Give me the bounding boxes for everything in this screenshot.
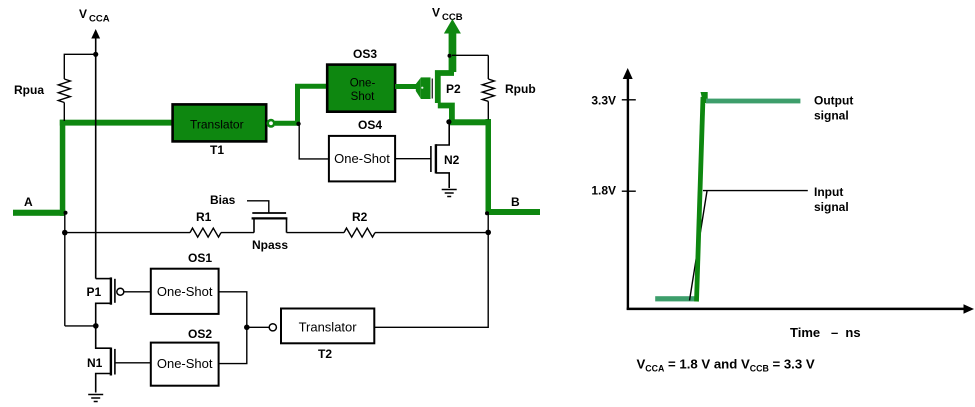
bubble P2 gate green flare [416, 78, 421, 99]
junction dot T1 OS4 branch [296, 122, 300, 126]
wire VCCA to Rpua [64, 54, 95, 79]
svg-text:Rpub: Rpub [505, 82, 536, 96]
output signal high segment light green [706, 99, 800, 104]
svg-text:N2: N2 [444, 153, 460, 167]
gate edge dark P2 [431, 79, 433, 99]
svg-text:Time – ns: Time – ns [790, 325, 861, 340]
label Input signal [814, 185, 849, 214]
wire P1 gate to OS1 [124, 291, 151, 293]
junction dot A corner [64, 211, 68, 215]
svg-text:Shot: Shot [351, 91, 375, 103]
wire R1 left segment [65, 232, 190, 234]
node A green bus [13, 120, 173, 216]
svg-text:V: V [432, 6, 440, 20]
junction dot P2 N2 drain [446, 119, 451, 124]
svg-text:R2: R2 [352, 210, 368, 224]
wire OS3 output green [395, 84, 416, 89]
svg-text:VCCA = 1.8 V and VCCB = 3.3 V: VCCA = 1.8 V and VCCB = 3.3 V [637, 357, 815, 374]
svg-text:N1: N1 [87, 356, 103, 370]
graph X axis [627, 304, 974, 314]
svg-text:Rpua: Rpua [14, 83, 44, 97]
resistor R2 [344, 228, 375, 237]
tick 1.8V [622, 190, 636, 192]
bubble T2 input [269, 324, 276, 331]
wire OS4 output to N2 gate [395, 158, 431, 160]
bubble P1 gate [117, 288, 124, 295]
transistor P2 green [438, 73, 454, 122]
svg-text:Input: Input [814, 185, 843, 199]
svg-text:OS4: OS4 [358, 118, 382, 132]
junction dot R1 left [62, 230, 68, 236]
wire green P2 drain to node B [449, 119, 491, 125]
svg-text:One-Shot: One-Shot [157, 284, 213, 299]
svg-text:Npass: Npass [252, 238, 288, 252]
svg-text:V: V [79, 7, 87, 21]
wire green T1 output to OS3 [275, 84, 328, 126]
label Output signal [814, 93, 853, 122]
transistor P1 [96, 277, 115, 326]
transistor N1 [96, 326, 115, 393]
output signal rising edge dark green [697, 92, 708, 302]
resistor Rpua [58, 79, 70, 121]
svg-text:Translator: Translator [190, 118, 244, 132]
svg-text:T1: T1 [210, 143, 224, 157]
graph Y axis [623, 68, 633, 310]
wire B corner to R2 junction [487, 212, 489, 232]
svg-text:Translator: Translator [299, 320, 358, 335]
svg-text:1.8V: 1.8V [591, 184, 616, 198]
junction VCCA dot [93, 52, 98, 57]
svg-text:A: A [24, 195, 33, 209]
wire VCCB to Rpub [452, 54, 488, 56]
svg-text:One-Shot: One-Shot [157, 356, 213, 371]
output signal low segment light green [655, 296, 698, 301]
svg-text:OS2: OS2 [188, 327, 212, 341]
transistor N2 [431, 122, 449, 188]
wire Npass to R2 [287, 232, 345, 234]
translator T1 box [173, 104, 267, 141]
svg-text:signal: signal [814, 200, 849, 214]
junction dot B corner [485, 211, 489, 215]
wire A corner down to R1 line and down to P1 drain row [64, 213, 66, 326]
wire OS1 output [219, 292, 247, 364]
wire R1 to Npass [221, 232, 254, 234]
power VCCA label [79, 7, 110, 25]
power VCCA arrow [91, 29, 100, 279]
input signal rising edge [690, 191, 708, 301]
svg-text:Bias: Bias [210, 193, 236, 207]
svg-text:T2: T2 [318, 347, 332, 361]
power VCCB green arrow [444, 19, 461, 72]
junction dot P1 N1 [93, 323, 99, 329]
svg-text:One-Shot: One-Shot [334, 151, 390, 166]
one-shot OS1 box [151, 269, 219, 314]
svg-text:P2: P2 [446, 82, 461, 96]
ground N1 [88, 395, 103, 402]
svg-text:Output: Output [814, 93, 853, 107]
svg-text:CCA: CCA [89, 14, 110, 25]
wire A branch to P1 N1 junction [65, 325, 96, 327]
svg-text:3.3V: 3.3V [591, 94, 616, 108]
svg-text:P1: P1 [87, 285, 102, 299]
wire OS outputs to T2 bubble [247, 326, 269, 328]
junction dot R2 right [485, 230, 491, 236]
node B green bus [486, 119, 541, 215]
transistor Npass [247, 201, 287, 233]
svg-text:OS3: OS3 [353, 47, 377, 61]
svg-text:R1: R1 [196, 210, 212, 224]
gate bar P2 green [421, 77, 431, 99]
wire N1 gate to OS2 [115, 362, 151, 364]
one-shot OS3 box [327, 65, 395, 112]
svg-text:One-: One- [350, 78, 376, 90]
svg-text:signal: signal [814, 108, 849, 122]
wire T1 branch to OS4 [299, 124, 329, 159]
tick 3.3V [622, 99, 636, 101]
one-shot OS4 box [329, 136, 395, 182]
bubble T1 output [268, 120, 274, 126]
svg-text:OS1: OS1 [188, 251, 212, 265]
wire T2 output loop [374, 232, 488, 327]
ground N2 [442, 190, 457, 197]
translator T2 box [281, 309, 374, 344]
resistor R1 [190, 228, 221, 237]
one-shot OS2 box [151, 343, 219, 386]
junction dot OS outputs [244, 325, 250, 331]
wire R2 to node B junction [375, 232, 488, 234]
power VCCB label [432, 6, 463, 24]
svg-text:B: B [511, 195, 520, 209]
input signal horizontal at 1.8V [703, 190, 808, 192]
junction dot VCCB [448, 54, 452, 58]
resistor Rpub [482, 55, 494, 119]
